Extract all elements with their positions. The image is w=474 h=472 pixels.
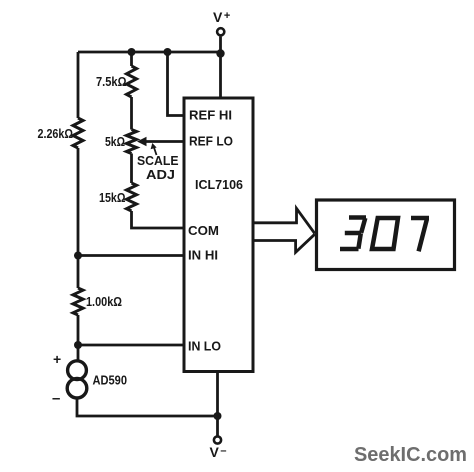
svg-text:SeekIC.com: SeekIC.com <box>354 443 467 466</box>
op-amp U1 ICL7106 box <box>184 98 253 372</box>
display digit 7 <box>411 218 429 251</box>
resistor R1 2.26k <box>73 118 83 148</box>
wire 5k to 15k <box>130 154 133 184</box>
svg-text:2.26kΩ: 2.26kΩ <box>38 126 74 141</box>
svg-text:IN HI: IN HI <box>188 248 218 263</box>
scale adj leader arrow <box>151 143 157 155</box>
wire 7.5k branch drop <box>130 52 133 66</box>
resistor R4 1.00k <box>73 288 83 315</box>
junction dot IN HI <box>74 252 82 260</box>
junction dot top 7.5k branch <box>128 48 136 56</box>
svg-text:AD590: AD590 <box>93 373 128 388</box>
junction dot bottom rail <box>214 412 222 420</box>
wire V+ drop to IC top <box>219 37 222 98</box>
junction dot V+ <box>216 49 224 57</box>
svg-text:15kΩ: 15kΩ <box>99 190 126 205</box>
display box <box>317 200 455 270</box>
wire IN LO <box>78 344 184 347</box>
svg-text:SCALE: SCALE <box>137 153 179 168</box>
wire REF HI branch <box>168 52 185 116</box>
svg-text:IN LO: IN LO <box>188 339 221 354</box>
wire IN HI <box>78 254 184 257</box>
svg-text:1.00kΩ: 1.00kΩ <box>86 294 122 309</box>
resistor R2 7.5k <box>127 66 137 97</box>
wire left rail upper <box>77 52 80 118</box>
wire AD590 bottom to bottom rail <box>77 398 218 417</box>
potentiometer R3 5k <box>127 130 137 154</box>
svg-text:REF LO: REF LO <box>189 134 233 149</box>
svg-text:REF HI: REF HI <box>189 108 232 123</box>
wire left rail mid <box>77 148 80 288</box>
junction dot top REF HI branch <box>164 48 172 56</box>
current source AD590 symbol <box>67 361 87 398</box>
svg-text:7.5kΩ: 7.5kΩ <box>96 74 127 89</box>
wiper arrow of 5k pot <box>137 137 147 146</box>
wire wiper to REF LO <box>141 140 184 143</box>
svg-text:5kΩ: 5kΩ <box>105 134 125 149</box>
svg-text:+: + <box>53 351 61 367</box>
wire top rail <box>78 51 221 54</box>
wire left rail lower <box>77 315 80 362</box>
wire IC out top <box>253 208 315 233</box>
resistor R5 15k <box>127 183 137 211</box>
wire 15k to COM pin <box>132 211 185 228</box>
junction dot IN LO <box>74 341 82 349</box>
display digit 0 <box>372 218 398 249</box>
wire IC bottom pin to V- <box>216 372 219 437</box>
svg-text:–: – <box>52 390 60 407</box>
svg-text:ICL7106: ICL7106 <box>195 177 243 192</box>
wire 7.5k to 5k <box>130 97 133 130</box>
svg-text:COM: COM <box>188 223 219 238</box>
svg-text:ADJ: ADJ <box>146 167 175 182</box>
wire IC out bottom <box>253 234 315 252</box>
display digit 3 <box>340 218 366 250</box>
terminal V- <box>214 436 221 443</box>
terminal V+ <box>217 28 224 35</box>
